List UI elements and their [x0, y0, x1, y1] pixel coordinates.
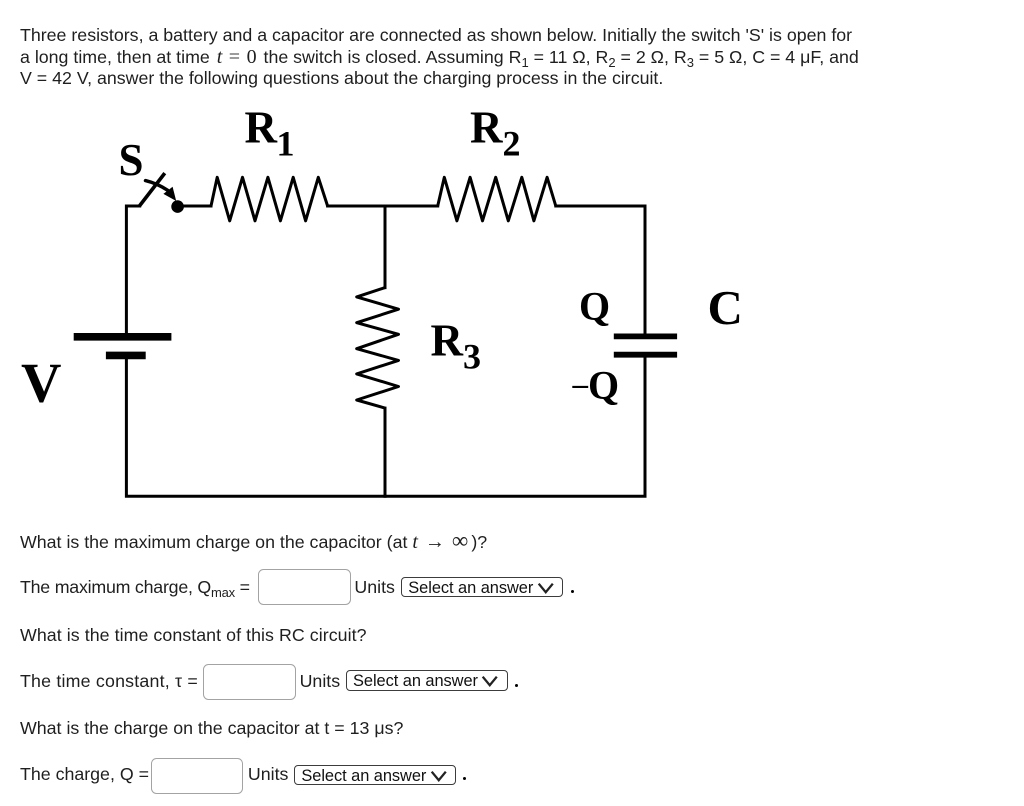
svg-text:Q: Q: [579, 284, 610, 329]
svg-text:C: C: [708, 280, 743, 335]
svg-text:1: 1: [277, 124, 295, 164]
svg-text:V: V: [21, 353, 61, 415]
svg-text:R: R: [470, 102, 503, 152]
svg-text:R: R: [245, 102, 278, 152]
svg-text:R: R: [431, 315, 464, 365]
svg-text:–Q: –Q: [572, 363, 620, 408]
svg-text:3: 3: [463, 337, 481, 377]
svg-text:S: S: [119, 135, 144, 185]
svg-text:2: 2: [503, 124, 521, 164]
